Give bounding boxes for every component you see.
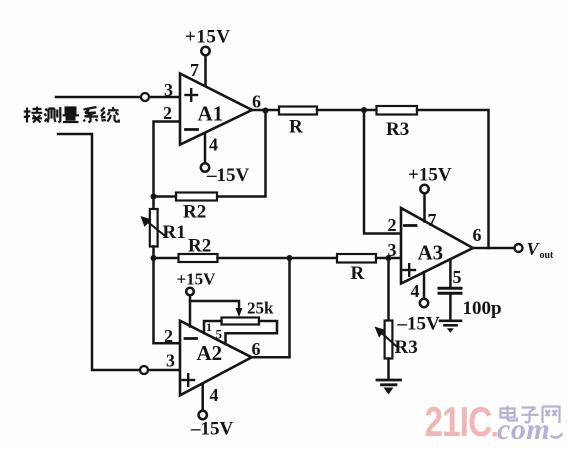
- wire A1 +15V stub pin7: [204, 55, 207, 87]
- svg-text:V: V: [527, 239, 541, 259]
- svg-text:+15V: +15V: [185, 27, 231, 48]
- svg-text:+15V: +15V: [408, 165, 452, 186]
- svg-text:3: 3: [388, 240, 397, 260]
- node junction at R2 second row: [151, 255, 157, 261]
- potentiometer R3 body: [385, 321, 393, 359]
- wire R to A3 pin3: [376, 257, 401, 260]
- svg-text:21IC: 21IC: [425, 399, 492, 446]
- potentiometer 25k body: [222, 318, 260, 325]
- svg-text:–15V: –15V: [190, 419, 234, 440]
- node junction left of R2: [151, 194, 157, 200]
- svg-text:A1: A1: [198, 102, 224, 126]
- watermark 21IC: [425, 399, 492, 446]
- char 系: [84, 107, 99, 123]
- wire node to R1 top: [152, 197, 155, 210]
- resistor R (A1 output) body: [279, 107, 317, 115]
- terminal circle A3 -15V: [420, 299, 428, 307]
- node junction top row: [361, 107, 367, 113]
- svg-text:6: 6: [252, 339, 261, 359]
- wire A3 pin3 node down to R3 pot: [387, 258, 390, 321]
- wire R2 to node: [154, 195, 177, 198]
- node junction at A3 pin3: [386, 255, 392, 261]
- svg-text:1: 1: [206, 320, 212, 334]
- A1 plus sign: [186, 89, 198, 101]
- capacitor 100p plates: [439, 287, 461, 290]
- node junction A2 feedback tap: [287, 255, 293, 261]
- char 量: [63, 108, 80, 123]
- svg-text:4: 4: [209, 135, 218, 155]
- svg-text:R3: R3: [395, 337, 418, 358]
- svg-text:2: 2: [388, 215, 397, 235]
- wire R3 pot to ground: [387, 359, 390, 379]
- svg-text:5: 5: [216, 327, 223, 342]
- svg-text:2: 2: [163, 103, 172, 123]
- terminal circle A2 +15V: [186, 288, 194, 296]
- A1 minus sign: [186, 128, 198, 131]
- wire +15V tee to 25k wiper: [190, 301, 239, 309]
- potentiometer R1 arrow: [146, 221, 165, 236]
- svg-text:A3: A3: [418, 241, 444, 265]
- svg-text:7: 7: [190, 60, 199, 80]
- op-amp A1 triangle: [180, 74, 252, 145]
- svg-text:4: 4: [210, 385, 219, 405]
- char 接: [24, 107, 43, 123]
- wire 25k right end wrap to A2 pin5: [226, 321, 278, 344]
- svg-text:6: 6: [473, 225, 482, 245]
- wire R to node: [317, 109, 377, 112]
- wire R2 second to R: [218, 257, 338, 260]
- potentiometer R1 body: [150, 209, 158, 247]
- svg-text:7: 7: [428, 210, 437, 230]
- svg-text:–15V: –15V: [397, 314, 441, 335]
- svg-text:out: out: [540, 250, 555, 261]
- svg-text:R2: R2: [188, 236, 211, 257]
- 25k wiper arrowhead: [236, 308, 243, 317]
- svg-text:–15V: –15V: [206, 165, 250, 186]
- node junction at A1 output: [263, 108, 269, 114]
- resistor R2 second body: [179, 254, 218, 262]
- svg-text:100p: 100p: [463, 298, 502, 319]
- char 测: [45, 107, 61, 123]
- svg-text:3: 3: [166, 351, 175, 371]
- svg-text:+15V: +15V: [177, 270, 217, 289]
- svg-text:5: 5: [453, 267, 462, 287]
- svg-text:4: 4: [411, 281, 420, 301]
- ground (R3): [377, 380, 401, 385]
- terminal circle A1 +15V: [201, 47, 209, 55]
- terminal circle A3 +15V: [420, 185, 428, 193]
- watermark 电子网: [501, 406, 560, 424]
- wire input top to A1 pin3: [56, 96, 180, 99]
- wire capacitor to ground: [449, 293, 452, 319]
- svg-text:3: 3: [164, 80, 173, 100]
- svg-text:R2: R2: [183, 202, 206, 223]
- potentiometer R3 arrow: [380, 332, 396, 347]
- wire A2 output feedback up: [252, 258, 290, 357]
- wire A1 -15V stub pin4: [204, 133, 207, 164]
- wire A1 pin2 to feedback node: [154, 122, 181, 197]
- op-amp A2 triangle: [180, 321, 252, 396]
- svg-text:R3: R3: [386, 119, 409, 140]
- svg-text:25k: 25k: [247, 299, 274, 318]
- svg-text:A2: A2: [197, 341, 223, 365]
- svg-text:R1: R1: [163, 222, 186, 243]
- watermark swash: [551, 434, 563, 438]
- wire A3 output to Vout: [473, 247, 515, 250]
- terminal circle on A1 input: [141, 93, 149, 101]
- A3 minus sign: [405, 224, 417, 227]
- wire R top row from node down to A3 pin2: [364, 110, 401, 234]
- resistor R3 top body: [377, 106, 418, 115]
- wire A1 output: [252, 109, 279, 112]
- A2 plus sign: [183, 374, 195, 386]
- svg-text:6: 6: [252, 92, 261, 112]
- A2 minus sign: [185, 337, 197, 340]
- char 统: [101, 107, 119, 122]
- terminal circle on A2 input: [140, 366, 148, 374]
- wire feedback from A1 output down: [217, 111, 266, 197]
- op-amp A3 triangle: [401, 208, 473, 284]
- terminal circle A1 -15V: [201, 163, 209, 171]
- terminal circle Vout: [515, 244, 523, 252]
- svg-text:2: 2: [164, 326, 173, 346]
- svg-text:R: R: [289, 117, 303, 138]
- wire A3 -15V stub pin4: [423, 272, 426, 299]
- Chinese caption: 接测量系统: [24, 107, 119, 123]
- wire A3 pin5 stub to capacitor: [449, 260, 452, 287]
- wire A3 +15V stub pin7: [423, 193, 426, 222]
- wire node to A2 pin2: [154, 258, 181, 343]
- wire A2 -15V stub pin4: [201, 384, 204, 412]
- wire R1 bottom to node: [152, 247, 155, 259]
- resistor R (to A3 pin3) body: [337, 254, 376, 263]
- wire A2 +15V stub pin7: [189, 295, 192, 326]
- wire input bottom to A2 pin3: [58, 134, 180, 370]
- terminal circle A2 -15V: [199, 411, 207, 419]
- wire R3 to A3 output feedback: [417, 110, 489, 248]
- svg-text:R: R: [351, 263, 365, 284]
- wire node to resistor R2 second: [154, 257, 179, 260]
- A3 plus sign: [404, 264, 416, 276]
- ground (capacitor): [440, 321, 461, 326]
- svg-text:com: com: [497, 413, 550, 446]
- resistor R2 (A1 feedback): [176, 193, 217, 201]
- wire 25k left end to A2 pin1: [204, 321, 222, 333]
